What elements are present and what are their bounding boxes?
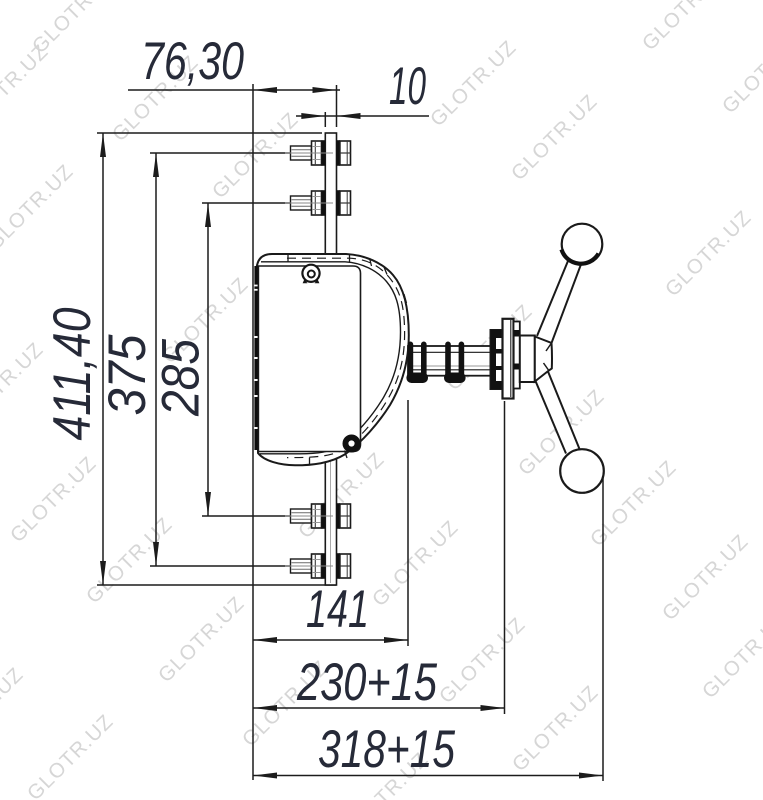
svg-text:411,40: 411,40: [43, 307, 102, 440]
svg-text:76,30: 76,30: [141, 32, 244, 91]
svg-text:285: 285: [152, 339, 211, 417]
svg-text:141: 141: [306, 580, 369, 639]
svg-text:375: 375: [98, 334, 157, 415]
svg-text:230+15: 230+15: [296, 653, 437, 712]
svg-text:10: 10: [389, 57, 426, 116]
svg-text:318+15: 318+15: [318, 720, 455, 779]
